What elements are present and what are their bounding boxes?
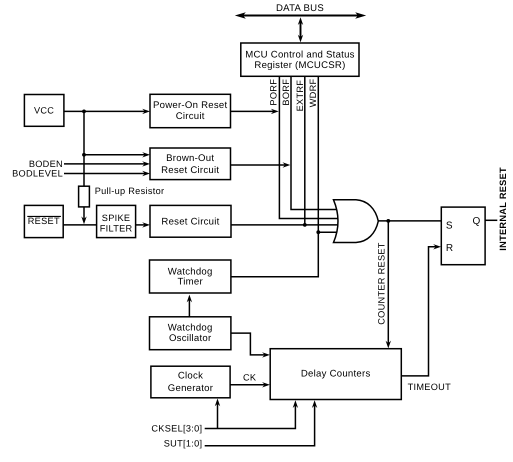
wire TIMEOUT delay counters to latch R input xyxy=(401,247,438,376)
svg-text:EXTRF: EXTRF xyxy=(295,80,305,112)
OR gate U1 xyxy=(334,200,379,243)
svg-text:Delay Counters: Delay Counters xyxy=(301,368,371,379)
wire: DATA BUS horizontal double-arrow xyxy=(235,12,366,18)
wire watchdog oscillator to watchdog timer xyxy=(188,298,190,317)
svg-text:CKSEL[3:0]: CKSEL[3:0] xyxy=(151,423,202,433)
wire EXTRF vertical from register down to reset line xyxy=(304,76,306,225)
svg-text:Register (MCUCSR): Register (MCUCSR) xyxy=(254,60,345,71)
svg-text:R: R xyxy=(446,243,453,254)
svg-text:DATA BUS: DATA BUS xyxy=(276,3,324,14)
wire BODEN xyxy=(64,163,147,165)
wire VCC drop to pull-up resistor xyxy=(83,111,85,186)
svg-text:S: S xyxy=(446,221,453,232)
wire SUT[1:0] xyxy=(205,403,315,446)
wire OR gate output to latch S input xyxy=(378,220,441,222)
box Watchdog Oscillator xyxy=(150,317,231,350)
junction dot on VCC line xyxy=(82,110,86,114)
svg-text:Circuit: Circuit xyxy=(176,111,205,122)
wire VCC branch to Brown-Out Reset Circuit xyxy=(84,154,147,156)
svg-text:INTERNAL RESET: INTERNAL RESET xyxy=(498,167,508,251)
svg-text:Watchdog: Watchdog xyxy=(168,323,213,334)
box Delay Counters xyxy=(270,349,401,400)
svg-text:CK: CK xyxy=(243,373,257,383)
svg-text:Power-On Reset: Power-On Reset xyxy=(153,100,227,111)
box Clock Generator xyxy=(151,366,230,398)
wire Brown-Out Reset output to BORF xyxy=(231,164,288,166)
junction dot on VCC drop xyxy=(82,153,86,157)
svg-text:Clock: Clock xyxy=(178,371,203,382)
wire CKSEL[3:0] xyxy=(205,403,296,428)
svg-text:COUNTER RESET: COUNTER RESET xyxy=(376,242,386,325)
svg-text:SPIKE: SPIKE xyxy=(102,213,131,223)
wire WDRF vertical from register down to watchdog timer output xyxy=(231,76,318,276)
resistor R pull-up xyxy=(79,186,90,207)
junction dot EXTRF on reset line xyxy=(303,223,307,227)
svg-text:BODLEVEL: BODLEVEL xyxy=(12,169,63,179)
svg-text:PORF: PORF xyxy=(269,79,279,106)
wire CKSEL branch to clock generator xyxy=(217,402,219,429)
wire RESET to spike filter xyxy=(63,224,96,226)
svg-text:FILTER: FILTER xyxy=(100,224,133,234)
wire resistor to reset line xyxy=(83,207,85,221)
svg-text:Reset Circuit: Reset Circuit xyxy=(161,217,219,228)
svg-text:Timer: Timer xyxy=(177,277,203,288)
svg-text:Generator: Generator xyxy=(168,383,214,394)
svg-text:BODEN: BODEN xyxy=(29,159,63,169)
wire BORF vertical from register down into OR gate xyxy=(291,76,340,209)
junction dot counter reset xyxy=(386,219,390,223)
register MCUCSR box xyxy=(241,43,359,76)
junction dot WDRF/gate branch xyxy=(316,230,320,234)
wire COUNTER RESET down to delay counters xyxy=(387,221,389,346)
box Watchdog Timer xyxy=(150,260,231,293)
svg-text:Reset Circuit: Reset Circuit xyxy=(161,165,219,176)
box VCC xyxy=(24,95,64,127)
box Reset Circuit xyxy=(150,205,231,237)
svg-text:Oscillator: Oscillator xyxy=(169,333,212,344)
svg-text:Brown-Out: Brown-Out xyxy=(166,153,214,164)
wire VCC to Power-On Reset Circuit xyxy=(64,110,147,112)
wire Q output xyxy=(485,219,497,221)
svg-text:TIMEOUT: TIMEOUT xyxy=(408,382,452,392)
svg-text:RESET: RESET xyxy=(28,216,60,226)
box RESET (with overline) xyxy=(24,205,63,237)
box Brown-Out Reset Circuit xyxy=(150,148,231,180)
svg-text:BORF: BORF xyxy=(281,79,291,106)
wire spike filter to reset circuit xyxy=(136,224,147,226)
wire reset circuit output into OR gate xyxy=(231,224,340,226)
wire BODLEVEL xyxy=(64,173,147,175)
svg-text:WDRF: WDRF xyxy=(308,78,318,107)
wire watchdog oscillator to delay counters xyxy=(231,333,267,355)
wire CK clock generator to delay counters xyxy=(230,384,267,386)
svg-text:SUT[1:0]: SUT[1:0] xyxy=(164,438,203,448)
wire: vertical double-arrow MCUCSR to data bus xyxy=(298,17,303,42)
wire Power-On Reset output to PORF xyxy=(231,110,277,112)
svg-text:Pull-up Resistor: Pull-up Resistor xyxy=(95,186,165,196)
box Power-On Reset Circuit xyxy=(150,94,231,127)
svg-text:VCC: VCC xyxy=(34,105,54,115)
wire PORF vertical from register down into OR gate xyxy=(279,76,340,218)
box SPIKE FILTER xyxy=(97,205,136,237)
latch S/R box xyxy=(441,207,485,265)
wire WDRF branch to OR gate xyxy=(318,231,340,233)
svg-text:Q: Q xyxy=(473,216,481,227)
